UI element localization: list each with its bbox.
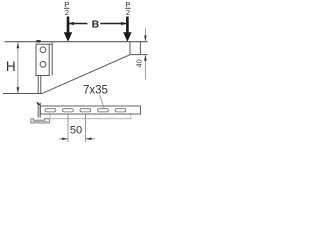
svg-text:2: 2 [65, 8, 69, 17]
svg-text:7x35: 7x35 [83, 85, 108, 97]
svg-text:H: H [6, 59, 16, 74]
svg-text:50: 50 [70, 125, 82, 137]
svg-text:B: B [92, 18, 100, 30]
svg-text:2: 2 [126, 8, 130, 17]
svg-text:40: 40 [135, 59, 144, 67]
